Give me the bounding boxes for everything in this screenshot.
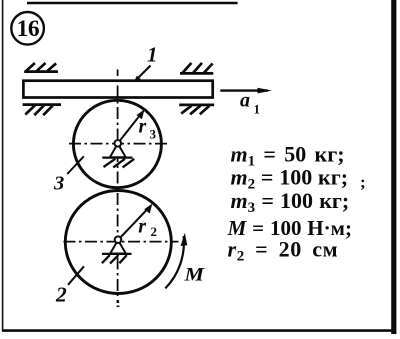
svg-text:r: r (138, 216, 146, 238)
svg-text:2: 2 (55, 283, 67, 307)
svg-text:r: r (139, 115, 147, 137)
svg-text:3: 3 (150, 127, 157, 142)
svg-text:r2 = 20 см: r2 = 20 см (228, 237, 339, 265)
svg-text:;: ; (360, 173, 366, 192)
svg-text:1: 1 (254, 101, 261, 116)
svg-text:16: 16 (17, 16, 40, 42)
svg-text:M: M (183, 266, 204, 286)
svg-text:3: 3 (53, 173, 64, 195)
svg-text:1: 1 (147, 42, 158, 66)
svg-text:2: 2 (151, 224, 158, 239)
svg-text:a: a (240, 89, 250, 111)
